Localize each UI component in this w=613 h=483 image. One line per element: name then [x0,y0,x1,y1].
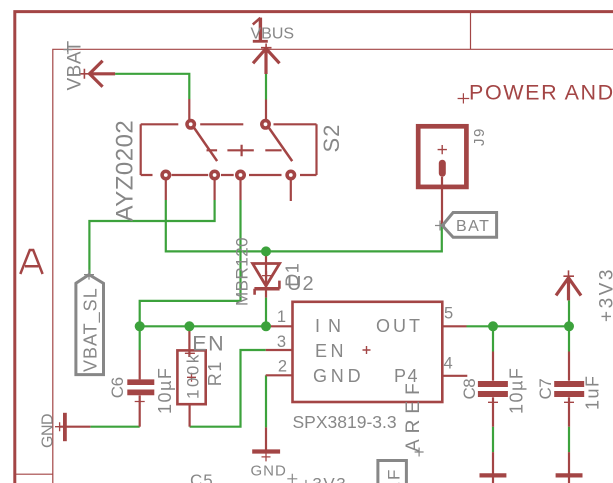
svg-text:MBR120: MBR120 [233,237,252,306]
svg-text:2: 2 [278,357,287,375]
svg-text:VBAT: VBAT [65,40,86,90]
svg-text:EN: EN [315,341,347,361]
svg-text:1: 1 [277,308,286,326]
svg-text:5: 5 [444,304,453,322]
svg-text:J9: J9 [471,127,488,146]
svg-text:GND: GND [313,366,364,386]
svg-text:BAT: BAT [456,218,490,235]
svg-text:IN: IN [315,316,349,336]
svg-text:VBAT_SL: VBAT_SL [81,287,102,372]
svg-text:10µF: 10µF [507,367,527,414]
svg-text:R1: R1 [205,360,225,386]
svg-text:GND: GND [40,414,57,448]
svg-text:+3V3: +3V3 [301,475,347,483]
svg-text:EN: EN [192,331,225,355]
svg-text:4: 4 [444,354,453,372]
svg-text:VBUS: VBUS [251,25,295,42]
svg-text:C5: C5 [190,471,214,483]
svg-text:100k: 100k [184,352,203,399]
svg-text:AYZ0202: AYZ0202 [112,120,139,222]
svg-text:U2: U2 [287,273,315,295]
svg-text:OUT: OUT [376,316,423,336]
svg-text:SPX3819-3.3: SPX3819-3.3 [293,412,397,432]
svg-text:C7: C7 [536,379,555,400]
svg-text:1uF: 1uF [583,374,603,410]
svg-text:3: 3 [277,333,286,351]
svg-text:+3V3: +3V3 [597,267,613,322]
svg-text:S2: S2 [319,124,344,153]
svg-text:10µF: 10µF [155,367,175,414]
svg-text:GND: GND [251,463,287,480]
svg-text:AREF: AREF [385,468,404,483]
svg-text:POWER AND B: POWER AND B [469,81,613,105]
svg-text:P4: P4 [394,366,419,386]
svg-text:AREF: AREF [403,377,424,452]
svg-text:C6: C6 [108,377,127,398]
svg-text:C8: C8 [460,379,479,400]
